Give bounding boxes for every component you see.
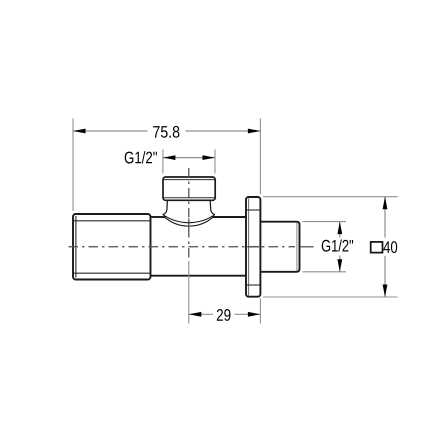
dimension 29 arrow left [189, 312, 202, 317]
dimension square-40 arrow top [383, 197, 388, 210]
dimension square-40 line [384, 197, 386, 297]
dimension 29 line [189, 313, 261, 315]
dimension G1/2 right extension line top [303, 221, 347, 223]
dimension G1/2 top arrow left [163, 155, 176, 160]
dimension G1/2 top text [125, 151, 157, 163]
dimension 75.8 arrow right [248, 129, 261, 134]
valve handle block (left square cap) [73, 214, 151, 280]
horizontal centerline [69, 246, 296, 248]
dimension 75.8 extension line right [259, 119, 261, 195]
dimension 75.8 extension line left [72, 119, 74, 212]
dimension square-40 extension line bottom [263, 296, 398, 298]
dimension G1/2 right extension line bottom [303, 271, 347, 273]
wall flange (escutcheon) [246, 197, 260, 297]
dimension square-40 text [383, 241, 397, 253]
dimension square-40 extension line top [263, 196, 398, 198]
dimension 75.8 text [153, 126, 179, 138]
vertical centerline of top outlet [188, 168, 190, 262]
dimension 29 extension line right [259, 299, 261, 324]
dimension G1/2 top arrow right [203, 155, 216, 160]
dimension 75.8 arrow left [73, 129, 86, 134]
vertical centerline dash across saddle [188, 219, 190, 230]
dimension 29 text [217, 309, 231, 321]
dimension G1/2 right line [339, 222, 341, 272]
horizontal centerline dash across flange [247, 246, 262, 248]
dimension 29 extension line left (neck centerline extension) [188, 262, 190, 324]
dimension G1/2 top extension line left [162, 150, 164, 174]
dimension 75.8 line [73, 130, 260, 132]
valve body (horizontal cylinder) [151, 217, 247, 276]
dimension square-40 square symbol [371, 242, 383, 253]
horizontal centerline end dash [301, 246, 314, 248]
top outlet nut (G1/2 male thread) [163, 177, 215, 200]
dimension G1/2 right text [322, 239, 353, 251]
neck and fillet between nut and body [163, 200, 215, 226]
dimension G1/2 top line [163, 157, 215, 159]
dimension G1/2 top extension line right [214, 150, 216, 174]
dimension G1/2 right arrow top [337, 222, 342, 235]
dimension 29 arrow right [248, 312, 261, 317]
outlet pipe (right G1/2 male thread) [260, 222, 299, 272]
dimension G1/2 right arrow bottom [337, 259, 342, 272]
dimension square-40 arrow bottom [383, 285, 388, 298]
